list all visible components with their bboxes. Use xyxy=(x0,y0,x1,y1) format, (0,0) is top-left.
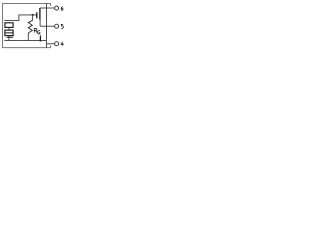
transistor Q1 gate bar xyxy=(36,12,38,18)
package outline box U1 xyxy=(3,4,51,48)
pin 6 label xyxy=(61,7,63,11)
label RG xyxy=(34,28,40,34)
pin 4 label xyxy=(61,42,64,46)
transistor Q2 bar xyxy=(39,35,41,40)
photovoltaic stack top wire xyxy=(4,15,36,21)
vertical bus xyxy=(46,4,48,48)
wire xyxy=(8,36,10,41)
resistor RG bottom lead xyxy=(27,33,29,41)
resistor RG xyxy=(28,20,32,33)
node A junction dot xyxy=(32,14,34,16)
terminal pin 4 xyxy=(55,42,59,46)
drain wire to pin 6 xyxy=(40,7,55,9)
bar electrode xyxy=(7,36,13,38)
transistor Q1 source lead xyxy=(39,20,41,27)
photodiode block D2 xyxy=(5,30,13,35)
source wire to pin 5 xyxy=(40,25,55,27)
wire to pin 4 xyxy=(47,43,55,45)
pin 5 label xyxy=(61,24,63,28)
transistor Q1 channel bar xyxy=(39,8,41,20)
wire xyxy=(8,27,10,30)
terminal pin 6 xyxy=(55,6,59,10)
photodiode block D1 xyxy=(5,23,13,28)
terminal pin 5 xyxy=(55,24,59,28)
bottom wire xyxy=(4,40,46,42)
node B junction dot xyxy=(39,40,41,42)
resistor RG top lead xyxy=(32,15,34,20)
